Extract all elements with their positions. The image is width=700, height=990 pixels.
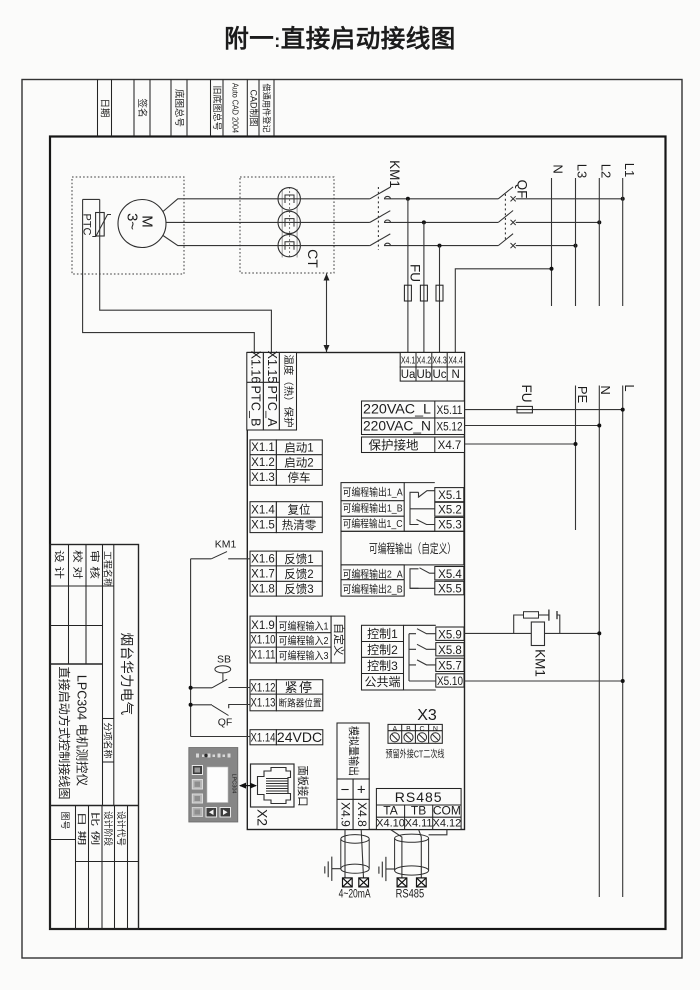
wire QF to L1 xyxy=(516,198,623,200)
connector X3 xyxy=(386,707,445,761)
control relay block 控制1-3 xyxy=(362,625,465,690)
svg-text:模拟量输出: 模拟量输出 xyxy=(347,726,361,776)
svg-text:A: A xyxy=(392,726,397,733)
svg-text:可编程输入2: 可编程输入2 xyxy=(279,634,329,647)
programmable output (custom) cell xyxy=(341,531,464,565)
svg-text:X1.12: X1.12 xyxy=(251,683,276,695)
svg-text:工程名称: 工程名称 xyxy=(102,551,113,587)
svg-text:X1.1: X1.1 xyxy=(251,442,275,454)
terminal lugs xyxy=(397,878,426,887)
svg-text:Auto CAD 2004: Auto CAD 2004 xyxy=(231,83,241,133)
wire X5.12 to N xyxy=(465,424,602,428)
controller LPC304 body xyxy=(247,353,464,830)
svg-text:RS485: RS485 xyxy=(396,889,425,901)
ground (shield) xyxy=(325,857,341,881)
svg-text:设 计: 设 计 xyxy=(52,550,65,579)
svg-text:反馈1: 反馈1 xyxy=(284,553,313,566)
svg-text:FU: FU xyxy=(519,385,534,403)
svg-text:24VDC: 24VDC xyxy=(277,729,322,745)
svg-text:QF: QF xyxy=(514,180,529,199)
svg-text:预留外接CT二次线: 预留外接CT二次线 xyxy=(386,748,445,761)
svg-text:可编程输出2_B: 可编程输出2_B xyxy=(343,583,403,596)
svg-text:X5.10: X5.10 xyxy=(437,676,463,688)
svg-text:Ub: Ub xyxy=(417,369,432,381)
wire coil to N xyxy=(545,631,602,635)
svg-text:签名: 签名 xyxy=(136,98,148,117)
svg-text:CT: CT xyxy=(305,249,321,268)
terminal X4.1-X4.4 Ua Ub Uc N xyxy=(400,353,464,382)
circuit breaker QF xyxy=(498,180,529,249)
node N (supply) xyxy=(551,164,566,306)
wire phase W xyxy=(163,236,370,246)
svg-text:X5.8: X5.8 xyxy=(438,645,462,657)
junction Uc tap xyxy=(438,244,442,248)
svg-text:N: N xyxy=(551,164,566,173)
svg-text:COM: COM xyxy=(433,804,461,818)
svg-text:PE: PE xyxy=(575,386,590,404)
svg-text:L2: L2 xyxy=(598,164,613,178)
svg-text:KM1: KM1 xyxy=(387,160,402,188)
node L2 xyxy=(598,164,613,306)
svg-text:设计阶段: 设计阶段 xyxy=(103,811,114,846)
node N (220V feed) xyxy=(598,385,613,897)
coil KM1 xyxy=(531,622,547,677)
node PE xyxy=(575,386,590,531)
RJ45 panel port X2 xyxy=(251,764,311,826)
svg-text:X3: X3 xyxy=(417,707,437,724)
junction on L3 xyxy=(574,244,578,248)
svg-text:公共端: 公共端 xyxy=(364,675,400,689)
relay contact output2 xyxy=(410,568,435,589)
node L1 xyxy=(622,163,637,306)
wire QF to L3 xyxy=(516,245,576,247)
svg-text:L: L xyxy=(622,384,637,391)
svg-text:QF: QF xyxy=(218,717,233,729)
wire X5.10 to L xyxy=(465,679,625,683)
svg-text:保护接地: 保护接地 xyxy=(368,438,419,453)
top revision table xyxy=(98,80,275,137)
svg-text:图号: 图号 xyxy=(60,812,70,830)
LPC304 front panel device xyxy=(189,748,238,823)
ground (shield) xyxy=(379,857,395,881)
svg-text:断路器位置: 断路器位置 xyxy=(279,698,322,710)
wire TA down xyxy=(391,830,402,878)
terminal 220VAC block xyxy=(362,401,465,453)
CT dashed enclosure xyxy=(240,177,334,273)
svg-text:X2: X2 xyxy=(254,809,270,826)
svg-text:RS485: RS485 xyxy=(395,789,443,805)
svg-text:自定义: 自定义 xyxy=(332,623,346,656)
svg-text:启动1: 启动1 xyxy=(284,442,313,455)
svg-text:X1.15: X1.15 xyxy=(265,351,279,384)
svg-text:温度（热）保护: 温度（热）保护 xyxy=(282,355,295,428)
wire X5.9 to KM1 coil xyxy=(465,632,532,634)
svg-text:烟台华力电气: 烟台华力电气 xyxy=(119,633,134,716)
svg-text:X1.16: X1.16 xyxy=(249,351,263,384)
svg-text:可编程输出1_C: 可编程输出1_C xyxy=(343,517,403,530)
svg-text:FU: FU xyxy=(408,264,423,282)
svg-text:220VAC_L: 220VAC_L xyxy=(363,402,432,417)
svg-text:X4.3: X4.3 xyxy=(432,356,447,367)
svg-text:C: C xyxy=(419,726,424,733)
svg-text:分项名称: 分项名称 xyxy=(102,722,113,758)
wire phase V xyxy=(166,221,370,223)
programmable output 1 block xyxy=(341,483,464,532)
svg-text:PTC_B: PTC_B xyxy=(249,386,263,427)
CT secondary arrow to controller xyxy=(324,274,330,353)
wire X5.11 to L with fuse FU xyxy=(465,385,625,413)
svg-text:4~20mA: 4~20mA xyxy=(339,889,371,901)
RC snubber across coil xyxy=(514,610,560,634)
svg-text:X5.1: X5.1 xyxy=(438,490,462,502)
svg-text:X4.4: X4.4 xyxy=(448,356,463,367)
svg-text:X1.11: X1.11 xyxy=(251,650,276,662)
relay contacts control xyxy=(409,629,436,681)
contactor KM1 aux contact xyxy=(191,539,250,559)
svg-text:X1.7: X1.7 xyxy=(251,569,275,581)
svg-text:底图总号: 底图总号 xyxy=(173,89,185,127)
LCD screen xyxy=(207,767,228,803)
svg-text:反馈3: 反馈3 xyxy=(284,583,313,596)
buttons xyxy=(192,766,202,775)
svg-text:X5.9: X5.9 xyxy=(438,630,462,642)
svg-text:借通用件登记: 借通用件登记 xyxy=(262,84,272,133)
fuse FU (voltage taps) xyxy=(404,264,443,301)
title block xyxy=(50,545,139,930)
resistor R xyxy=(524,612,539,618)
wire phase U KM1-QF xyxy=(384,198,498,200)
svg-text:X1.4: X1.4 xyxy=(251,505,275,517)
svg-text:3~: 3~ xyxy=(123,213,140,230)
svg-text:控制1: 控制1 xyxy=(367,627,398,641)
svg-text:X4.1: X4.1 xyxy=(401,356,416,367)
svg-text:SB: SB xyxy=(217,654,231,666)
shielded cable 4-20mA xyxy=(325,830,371,901)
svg-text:可编程输入1: 可编程输入1 xyxy=(279,620,329,633)
terminal X1.16 / X1.15 PTC block xyxy=(247,351,297,430)
svg-text:日 期: 日 期 xyxy=(77,812,87,846)
capacitor C xyxy=(548,610,550,621)
wire phase V KM1-QF xyxy=(384,221,498,223)
svg-text:X5.12: X5.12 xyxy=(437,422,463,434)
inner frame xyxy=(50,137,666,930)
wire PTC_B to X1.16 xyxy=(83,199,255,352)
svg-text:N: N xyxy=(598,385,613,394)
svg-text:L3: L3 xyxy=(575,164,590,178)
svg-text:Uc: Uc xyxy=(432,369,446,381)
svg-text:复位: 复位 xyxy=(288,503,311,517)
svg-text:X4.11: X4.11 xyxy=(405,818,433,830)
wire X4.9 down xyxy=(344,830,346,878)
wire X4.8 down xyxy=(361,830,363,878)
svg-text:X1.9: X1.9 xyxy=(251,620,275,632)
svg-text:可编程输出1_A: 可编程输出1_A xyxy=(343,486,403,499)
current transformer CT xyxy=(278,187,300,259)
contactor KM1 main contacts xyxy=(370,160,402,250)
wire 24VDC xyxy=(191,736,250,738)
wire feedback bus xyxy=(190,559,192,737)
svg-text:X1.5: X1.5 xyxy=(251,520,275,532)
shielded cable RS485 xyxy=(379,830,447,901)
svg-text:可编程输出（自定义）: 可编程输出（自定义） xyxy=(369,541,456,556)
svg-text:比 例: 比 例 xyxy=(90,812,101,846)
svg-text:紧停: 紧停 xyxy=(284,680,313,695)
svg-text:X4.2: X4.2 xyxy=(417,356,432,367)
svg-text:反馈2: 反馈2 xyxy=(284,568,313,581)
wire X4.4 to N xyxy=(455,269,551,353)
svg-text:TA: TA xyxy=(383,804,397,818)
svg-text:−: − xyxy=(341,782,350,799)
svg-text:X5.7: X5.7 xyxy=(438,661,462,673)
node L3 xyxy=(575,164,590,306)
svg-text:控制2: 控制2 xyxy=(367,643,398,657)
wire QF to L2 xyxy=(516,221,600,223)
svg-text:X4.10: X4.10 xyxy=(376,818,405,830)
svg-text:X5.11: X5.11 xyxy=(437,405,463,417)
svg-text:CAD制图: CAD制图 xyxy=(248,89,259,126)
svg-text:N: N xyxy=(451,369,459,381)
wire phase U motor-CT-KM1 xyxy=(163,199,370,212)
svg-text:LPC304: LPC304 xyxy=(230,774,236,794)
svg-text:KM1: KM1 xyxy=(215,539,237,551)
svg-text:旧底图总号: 旧底图总号 xyxy=(212,85,223,130)
svg-text:X4.12: X4.12 xyxy=(433,818,462,830)
svg-text:PTC_A: PTC_A xyxy=(265,386,279,428)
RS485 block xyxy=(376,789,461,830)
pushbutton SB xyxy=(189,654,250,690)
terminals X1.9-X1.11 programmable inputs xyxy=(250,616,346,663)
svg-text:设计代号: 设计代号 xyxy=(116,811,127,846)
svg-text:审 核: 审 核 xyxy=(88,550,101,579)
wire PTC_A to X1.15 xyxy=(100,199,272,352)
svg-text:X5.5: X5.5 xyxy=(438,584,462,596)
svg-text:B: B xyxy=(406,726,411,733)
junction Ub tap xyxy=(422,220,426,224)
svg-text:X1.3: X1.3 xyxy=(251,472,275,484)
svg-text:X1.10: X1.10 xyxy=(251,635,276,647)
programmable output 2 block xyxy=(341,565,464,596)
breaker QF aux contact xyxy=(189,703,250,729)
node L (220V feed) xyxy=(622,384,637,897)
svg-text:校 对: 校 对 xyxy=(71,550,84,579)
wire Ua drop xyxy=(407,199,409,353)
svg-text:KM1: KM1 xyxy=(533,649,548,677)
terminals X1.12 X1.13 xyxy=(250,680,323,711)
svg-text:X5.3: X5.3 xyxy=(438,520,462,532)
wire TB down xyxy=(419,830,422,878)
thermistor PTC xyxy=(80,199,111,236)
svg-text:X1.13: X1.13 xyxy=(251,698,276,710)
terminals X1.1-X1.8 xyxy=(250,440,322,596)
svg-text:TB: TB xyxy=(411,804,426,818)
svg-text:面板接口: 面板接口 xyxy=(296,766,310,807)
svg-text:可编程输入3: 可编程输入3 xyxy=(279,649,329,662)
wire Uc drop xyxy=(439,246,441,353)
junction on N xyxy=(550,267,554,271)
svg-text:控制3: 控制3 xyxy=(367,659,398,673)
svg-text:+: + xyxy=(357,782,366,799)
panel link arrow xyxy=(239,783,257,789)
svg-text:X1.8: X1.8 xyxy=(251,584,275,596)
relay contact output1 xyxy=(410,491,435,525)
svg-text:X4.9: X4.9 xyxy=(339,802,353,827)
junction on L1 xyxy=(621,197,625,201)
analog output block xyxy=(337,723,369,830)
svg-text:直接启动方式控制接线图: 直接启动方式控制接线图 xyxy=(57,667,72,800)
svg-text:Ua: Ua xyxy=(401,369,416,381)
svg-text:附一:直接启动接线图: 附一:直接启动接线图 xyxy=(224,24,456,53)
wire COM xyxy=(429,830,447,835)
junction Ua tap xyxy=(406,197,410,201)
svg-text:停车: 停车 xyxy=(288,471,311,485)
svg-text:可编程输出2_A: 可编程输出2_A xyxy=(343,568,403,581)
svg-text:X5.2: X5.2 xyxy=(438,505,462,517)
wire Ub drop xyxy=(423,222,425,352)
wire X4.7 to PE xyxy=(465,442,578,446)
svg-text:X1.2: X1.2 xyxy=(251,457,275,469)
wire phase W KM1-QF xyxy=(384,245,498,247)
svg-text:X4.7: X4.7 xyxy=(438,440,462,452)
svg-text:X5.4: X5.4 xyxy=(438,569,462,581)
svg-text:X4.8: X4.8 xyxy=(355,802,369,827)
svg-text:热清零: 热清零 xyxy=(282,519,317,532)
svg-text:X1.14: X1.14 xyxy=(251,733,276,745)
motor M1 xyxy=(118,200,166,248)
svg-text:启动2: 启动2 xyxy=(284,457,313,470)
svg-text:日期: 日期 xyxy=(99,98,110,117)
terminal lugs xyxy=(343,878,369,887)
svg-text:L1: L1 xyxy=(622,163,637,177)
terminal X1.14 24VDC xyxy=(250,729,323,745)
svg-text:可编程输出1_B: 可编程输出1_B xyxy=(343,502,403,515)
junction on L2 xyxy=(597,220,601,224)
motor dashed enclosure xyxy=(72,177,184,274)
svg-text:LPC304 电机测控仪: LPC304 电机测控仪 xyxy=(75,675,89,787)
svg-text:N: N xyxy=(433,726,438,733)
svg-text:220VAC_N: 220VAC_N xyxy=(363,419,431,434)
svg-text:X1.6: X1.6 xyxy=(251,554,275,566)
